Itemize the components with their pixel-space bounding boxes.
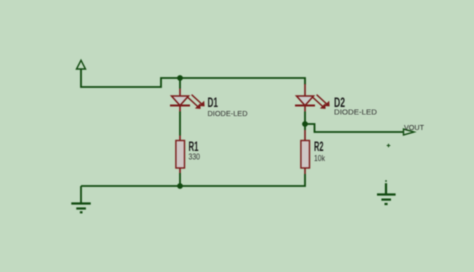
- svg-text:330: 330: [189, 153, 201, 162]
- svg-text:R2: R2: [314, 139, 324, 154]
- svg-text:VOUT: VOUT: [404, 125, 425, 132]
- svg-text:DIODE-LED: DIODE-LED: [334, 108, 378, 117]
- svg-text:DIODE-LED: DIODE-LED: [208, 109, 248, 118]
- svg-text:10k: 10k: [314, 154, 325, 163]
- svg-text:D1: D1: [208, 95, 219, 110]
